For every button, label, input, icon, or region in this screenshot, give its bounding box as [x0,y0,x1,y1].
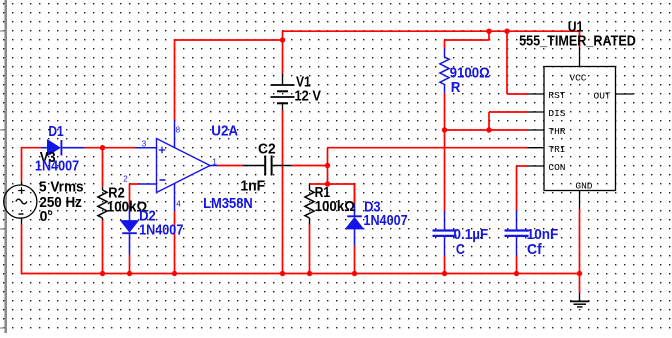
svg-text:RST: RST [548,90,565,101]
svg-text:5 Vrms: 5 Vrms [39,178,84,194]
svg-text:U2A: U2A [211,122,238,138]
svg-text:0°: 0° [40,208,54,224]
svg-text:TRI: TRI [548,144,565,155]
svg-text:CON: CON [548,162,565,173]
svg-text:C2: C2 [258,141,276,157]
svg-text:VCC: VCC [569,73,586,84]
svg-text:1N4007: 1N4007 [35,158,79,174]
svg-text:555_TIMER_RATED: 555_TIMER_RATED [519,33,636,49]
svg-text:9100Ω: 9100Ω [450,65,490,81]
svg-text:1N4007: 1N4007 [363,212,407,228]
svg-text:R: R [451,80,461,96]
svg-text:GND: GND [575,180,592,191]
svg-text:4: 4 [176,200,181,209]
svg-text:OUT: OUT [594,91,611,102]
svg-text:THR: THR [548,126,565,137]
svg-text:0.1µF: 0.1µF [454,225,489,241]
svg-text:1nF: 1nF [240,178,265,194]
svg-text:100kΩ: 100kΩ [315,198,355,215]
svg-text:10nF: 10nF [527,226,559,242]
svg-text:DIS: DIS [548,108,565,119]
svg-text:8: 8 [176,125,181,134]
svg-text:12 V: 12 V [295,88,321,104]
svg-text:1: 1 [212,158,217,167]
svg-text:1N4007: 1N4007 [139,222,183,238]
svg-text:C: C [456,241,465,257]
svg-text:2: 2 [123,175,128,184]
svg-text:Cf: Cf [527,241,542,257]
svg-text:3: 3 [142,140,147,149]
svg-text:D1: D1 [48,123,63,139]
svg-text:LM358N: LM358N [203,195,253,211]
